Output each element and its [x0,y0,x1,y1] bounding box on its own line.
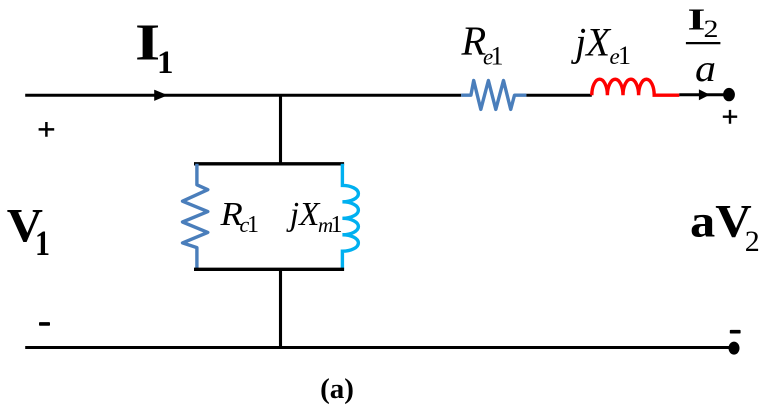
label V1 [7,199,50,262]
resistor Re1 [461,81,526,110]
resistor Rc1 (core-loss branch) [183,164,208,269]
node: secondary + terminal dot [723,88,735,101]
wire: shunt branch vertical down to bottom rail [279,269,282,347]
svg-text:1: 1 [331,212,343,238]
wire: top rail between Re1 and jXe1 [526,94,591,97]
wire: top rail left segment (V1 + terminal to node A) [25,94,280,97]
svg-text:aV: aV [690,195,752,247]
wire: shunt box top bar [194,162,344,165]
label I2 over a (fraction) [686,1,721,90]
inductor jXm1 (magnetizing branch) [342,164,358,269]
label - (primary, bottom left) [39,322,50,326]
wire: bottom rail [25,346,734,349]
wire: top rail right segment (jXe1 to secondary + terminal) [679,93,725,96]
label + (primary, left) [39,122,55,137]
wire: shunt box bottom bar [194,268,344,271]
label - (secondary, bottom right) [730,330,741,334]
svg-text:2: 2 [704,16,719,43]
label Re1 [461,17,504,70]
svg-text:1: 1 [618,41,631,70]
wire: shunt branch vertical (node A down to box) [279,95,282,164]
label I1 [135,14,174,81]
arrow: I2/a current direction [699,90,709,100]
label aV2 [690,195,760,258]
label jXe1 [570,19,631,70]
svg-text:2: 2 [745,225,760,258]
label Rc1 [219,196,259,238]
svg-text:1: 1 [157,45,174,81]
label + (secondary, right) [723,110,737,124]
label jXm1 [286,196,343,238]
label (a) caption [320,373,354,405]
arrow: I1 current direction [155,90,167,100]
svg-text:a: a [695,48,716,90]
svg-text:jX: jX [570,19,611,64]
svg-text:1: 1 [35,223,50,263]
svg-text:1: 1 [247,212,259,238]
inductor jXe1 [592,79,680,95]
wire: top rail mid segment (node A to Re1) [281,94,462,97]
svg-text:1: 1 [491,42,504,71]
node: secondary - terminal dot [729,342,740,355]
svg-text:(a): (a) [320,373,354,405]
svg-text:jX: jX [286,196,321,233]
